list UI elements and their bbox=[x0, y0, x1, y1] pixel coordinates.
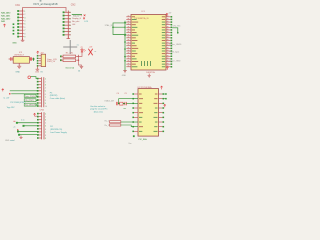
net wires right of IC2 top rows bbox=[164, 93, 167, 99]
svg-text:+5V: +5V bbox=[89, 46, 93, 48]
svg-text:GND: GND bbox=[12, 43, 17, 45]
svg-text:Com cable (blue): Com cable (blue) bbox=[50, 98, 66, 100]
IC2 left pin names bbox=[139, 94, 143, 131]
svg-text:PIC16F877A_20: PIC16F877A_20 bbox=[135, 17, 149, 20]
svg-text:XTAL2_4M: XTAL2_4M bbox=[104, 99, 114, 102]
junction dot on LED rail bbox=[78, 56, 80, 58]
svg-text:C4: C4 bbox=[117, 93, 119, 95]
IC1 left pin names bbox=[132, 17, 138, 67]
wire into R2 bbox=[61, 59, 63, 61]
not-connected cross on CN2 pin3 bbox=[83, 18, 85, 20]
net label box Vdd on CN2 bbox=[72, 14, 82, 17]
connector CN2 pins bbox=[63, 11, 72, 36]
svg-text:6: 6 bbox=[45, 94, 47, 96]
connector CN4 pins bbox=[37, 55, 41, 67]
IC2 body bbox=[138, 89, 159, 137]
svg-text:PWR_5V: PWR_5V bbox=[47, 61, 56, 63]
svg-text:GND: GND bbox=[15, 71, 20, 73]
resistor R1 body bbox=[63, 55, 76, 58]
net wire rowD to CN5 bbox=[19, 134, 39, 136]
supply +5V circle at CN3 bbox=[28, 76, 39, 79]
crystal wires to IC2 bbox=[118, 99, 134, 105]
supply +5V arrow left of CN1 bbox=[3, 24, 5, 27]
svg-text:4: 4 bbox=[45, 88, 47, 90]
IC1 right pin names bbox=[162, 17, 165, 67]
svg-text:4: 4 bbox=[24, 21, 26, 23]
svg-text:osc: osc bbox=[123, 108, 126, 110]
connector CN3 body bbox=[41, 77, 43, 107]
supply +5V arrow left area bbox=[2, 89, 4, 92]
capacitor C2 at regulator output bbox=[30, 57, 31, 61]
connector CN5 pins bbox=[37, 113, 47, 140]
svg-text:+5V: +5V bbox=[168, 13, 172, 15]
IC2 right pins bbox=[159, 93, 165, 132]
connector CN5 body bbox=[42, 112, 44, 139]
wire into R1 bbox=[61, 55, 63, 57]
svg-text:(RS232/LCD): (RS232/LCD) bbox=[50, 129, 62, 131]
svg-text:8: 8 bbox=[24, 33, 26, 35]
not-connected cross on CN2 pin2 bbox=[84, 15, 86, 17]
svg-text:PIC PGM (ICSP): PIC PGM (ICSP) bbox=[10, 102, 25, 104]
CN1 left net labels bbox=[1, 11, 11, 23]
resistor R4 left of IC2 bbox=[105, 124, 134, 127]
annotation P4 cyan bbox=[50, 126, 67, 134]
svg-text:Rx_1: Rx_1 bbox=[105, 121, 109, 123]
svg-text:RA1_AN1: RA1_AN1 bbox=[1, 14, 11, 17]
svg-text:CN_TX1: CN_TX1 bbox=[173, 25, 182, 27]
svg-text:Vss: Vss bbox=[128, 143, 131, 145]
svg-text:to +5V: to +5V bbox=[3, 97, 10, 100]
svg-text:no: no bbox=[77, 45, 79, 47]
net wire row1 to CN3 bbox=[10, 90, 39, 92]
ground symbol below CN1 bbox=[21, 38, 25, 41]
svg-text:5: 5 bbox=[45, 126, 47, 128]
svg-text:serial: serial bbox=[10, 139, 15, 142]
svg-text:2: 2 bbox=[45, 117, 47, 119]
capacitor C1 at regulator input bbox=[11, 57, 12, 61]
junction dot on row1 bbox=[9, 93, 11, 95]
ground symbol below CN2 bbox=[67, 36, 71, 38]
ground symbol below CN4 bbox=[36, 66, 40, 70]
junction node on +5V net bbox=[33, 58, 35, 61]
svg-text:3: 3 bbox=[45, 120, 47, 122]
net pad rowD bbox=[18, 134, 20, 136]
supply +5V arrow right of IC2 bbox=[164, 104, 166, 107]
svg-text:Low Power Supply: Low Power Supply bbox=[50, 132, 67, 134]
svg-text:4: 4 bbox=[69, 22, 71, 24]
svg-text:1: 1 bbox=[69, 12, 71, 14]
svg-text:8: 8 bbox=[69, 35, 71, 37]
IC1 right pins bbox=[166, 16, 172, 68]
origin cross mark bbox=[63, 40, 77, 54]
svg-text:9: 9 bbox=[45, 138, 47, 140]
svg-text:6: 6 bbox=[24, 27, 26, 29]
svg-text:10: 10 bbox=[45, 106, 48, 108]
teal notes left of CN5 bbox=[10, 118, 25, 142]
net pad at R1 input bbox=[60, 56, 62, 58]
connector CN4 value label bbox=[47, 59, 57, 63]
ground bus tail below IC1 bbox=[124, 59, 126, 70]
green net wire right of IC1 bbox=[172, 28, 178, 34]
junction dot lower on LED rail bbox=[78, 59, 80, 61]
svg-text:V0.5_al.Design#18: V0.5_al.Design#18 bbox=[33, 2, 58, 6]
svg-text:1: 1 bbox=[24, 11, 26, 13]
svg-text:LM7805CT: LM7805CT bbox=[14, 55, 25, 57]
junction dot rowC bbox=[17, 129, 18, 130]
net pad rowB bbox=[23, 125, 25, 127]
annotation cyan prog note bbox=[90, 105, 108, 114]
svg-text:RA2_AN2: RA2_AN2 bbox=[1, 17, 11, 20]
IC2 left pins bbox=[132, 93, 138, 132]
svg-text:8: 8 bbox=[45, 135, 47, 137]
svg-text:6: 6 bbox=[69, 28, 71, 30]
regulator ground pin wire bbox=[18, 63, 20, 66]
svg-text:RA0_AN0: RA0_AN0 bbox=[1, 11, 11, 14]
svg-text:Power_GND1: Power_GND1 bbox=[169, 44, 182, 46]
ground symbol left of CN5 bottom bbox=[19, 135, 22, 138]
net pad rowC bbox=[17, 131, 19, 133]
svg-text:1: 1 bbox=[45, 79, 47, 81]
IC2 right pin names bbox=[154, 94, 158, 131]
svg-text:CN2: CN2 bbox=[71, 5, 76, 7]
svg-text:5: 5 bbox=[45, 91, 47, 93]
connector CN1 pins bbox=[17, 10, 26, 38]
svg-text:3: 3 bbox=[45, 85, 47, 87]
svg-text:7: 7 bbox=[45, 97, 47, 99]
svg-text:XTAL_20: XTAL_20 bbox=[105, 24, 114, 27]
svg-text:7: 7 bbox=[45, 132, 47, 134]
svg-text:2: 2 bbox=[69, 15, 71, 17]
capacitor C5 body bbox=[125, 102, 126, 105]
svg-text:Vpp 13V: Vpp 13V bbox=[7, 107, 15, 109]
svg-text:tp: tp bbox=[80, 14, 82, 17]
tiny mark above title bbox=[40, 0, 42, 2]
svg-text:3: 3 bbox=[69, 19, 71, 21]
IC1 body PIC16F877A bbox=[131, 15, 166, 71]
svg-text:9: 9 bbox=[45, 103, 47, 105]
svg-text:Vpp_(MCLR): Vpp_(MCLR) bbox=[25, 105, 36, 107]
svg-text:CN5: CN5 bbox=[40, 110, 45, 112]
wire R1 to LED rail bbox=[76, 55, 82, 67]
IC1 inside green power texts bbox=[142, 61, 151, 66]
svg-text:IC1: IC1 bbox=[141, 11, 145, 13]
ground symbol below regulator bbox=[17, 66, 21, 68]
LED D1 bbox=[78, 48, 85, 57]
svg-text:(RS232): (RS232) bbox=[50, 95, 58, 97]
connector CN2 body line bbox=[67, 11, 69, 39]
svg-text:Green led: Green led bbox=[65, 67, 74, 69]
net pad rowA bbox=[16, 122, 18, 124]
ground symbol at bus tail bbox=[123, 71, 127, 73]
regulator IC3 body bbox=[13, 57, 29, 64]
svg-text:RA3: RA3 bbox=[1, 20, 6, 23]
crossed-out part X mark bbox=[88, 49, 92, 55]
svg-text:C5: C5 bbox=[124, 93, 126, 95]
svg-text:8: 8 bbox=[45, 100, 47, 102]
net label box MOSI bbox=[24, 94, 38, 97]
svg-text:16F877A: 16F877A bbox=[146, 71, 155, 74]
CN1 extra green pads bbox=[13, 23, 15, 34]
net pad at R2 input bbox=[60, 59, 62, 61]
connector CN3 pins bbox=[37, 78, 48, 108]
svg-text:Rx_2: Rx_2 bbox=[105, 125, 109, 127]
svg-text:PIC_84A: PIC_84A bbox=[139, 138, 148, 141]
wire net from CN1 pin1 to CN2 bbox=[23, 8, 66, 13]
svg-text:4: 4 bbox=[45, 123, 47, 125]
svg-text:6: 6 bbox=[45, 129, 47, 131]
crystal net wire left of IC1 bbox=[112, 23, 126, 35]
connector CN1 body line bbox=[22, 10, 24, 41]
svg-text:LCD: LCD bbox=[84, 21, 88, 23]
net wire row2 to CN3 bbox=[11, 93, 38, 95]
svg-text:tx rx: tx rx bbox=[21, 118, 24, 121]
supply arrow at IC1 bottom right bbox=[166, 67, 168, 70]
net wire rowA to CN5 bbox=[17, 122, 39, 124]
connector CN4 body bbox=[41, 54, 45, 66]
svg-text:nc: nc bbox=[94, 51, 96, 53]
svg-text:Clk_(PGC): Clk_(PGC) bbox=[25, 100, 34, 102]
svg-text:CN1: CN1 bbox=[15, 5, 20, 7]
net wire rowB to CN5 bbox=[23, 125, 39, 127]
svg-text:Display_G: Display_G bbox=[72, 18, 81, 20]
svg-text:7: 7 bbox=[24, 30, 26, 32]
svg-text:1: 1 bbox=[45, 114, 47, 116]
annotation P5 RS232 cyan bbox=[50, 92, 66, 100]
resistor R2 body bbox=[63, 59, 76, 62]
svg-text:9: 9 bbox=[24, 37, 26, 39]
pad below IC2 left bbox=[133, 135, 135, 137]
svg-text:P4: P4 bbox=[50, 126, 53, 128]
svg-text:+5: +5 bbox=[13, 126, 15, 128]
svg-text:2: 2 bbox=[24, 14, 26, 16]
red mark left of CN5 bbox=[13, 120, 15, 122]
net wire rowC to CN5 bbox=[18, 130, 39, 132]
crystal Q2 body bbox=[120, 102, 123, 105]
svg-text:Use this socket to: Use this socket to bbox=[90, 105, 105, 108]
svg-text:5: 5 bbox=[24, 24, 26, 26]
regulator output pin wire bbox=[29, 58, 34, 60]
IC1 left pins bbox=[126, 16, 131, 67]
supply +5V label at regulator output bbox=[37, 51, 44, 54]
svg-text:5V: 5V bbox=[40, 72, 43, 74]
ground symbol below LED rail bbox=[80, 66, 84, 68]
svg-text:Power_GND: Power_GND bbox=[169, 61, 181, 63]
resistor R3 left of IC2 bbox=[105, 121, 134, 123]
svg-text:CN3: CN3 bbox=[35, 72, 40, 74]
supply +5V arrow at CN5 bbox=[34, 113, 39, 116]
svg-text:P5: P5 bbox=[50, 92, 53, 94]
net label box MISO bbox=[24, 99, 38, 102]
svg-text:2: 2 bbox=[45, 82, 47, 84]
ground symbol below IC1 bbox=[148, 74, 151, 78]
net label box VPP bbox=[24, 103, 38, 106]
capacitor C4 body bbox=[116, 102, 117, 105]
svg-text:Brn_wht: Brn_wht bbox=[72, 20, 79, 23]
faint pin4 note on CN2 bbox=[72, 23, 75, 25]
supply +5V arrow above IC1 bbox=[166, 13, 168, 16]
regulator input pin wire bbox=[9, 58, 14, 60]
ground bus net left of IC1 bbox=[124, 21, 126, 60]
supply +5V arrow above IC2 bbox=[161, 86, 163, 89]
svg-text:GND: GND bbox=[5, 140, 10, 142]
svg-text:R1_330: R1_330 bbox=[66, 52, 74, 54]
svg-text:prog the second PIC: prog the second PIC bbox=[90, 108, 108, 111]
svg-text:PGM_input: PGM_input bbox=[169, 50, 179, 53]
svg-text:(blue wire): (blue wire) bbox=[94, 110, 103, 113]
svg-text:Data_(PGD): Data_(PGD) bbox=[25, 95, 35, 98]
svg-text:7: 7 bbox=[69, 32, 71, 34]
svg-text:3: 3 bbox=[24, 17, 26, 19]
svg-text:GND: GND bbox=[122, 75, 127, 77]
svg-text:b5: b5 bbox=[78, 70, 80, 72]
svg-text:5: 5 bbox=[69, 25, 71, 27]
